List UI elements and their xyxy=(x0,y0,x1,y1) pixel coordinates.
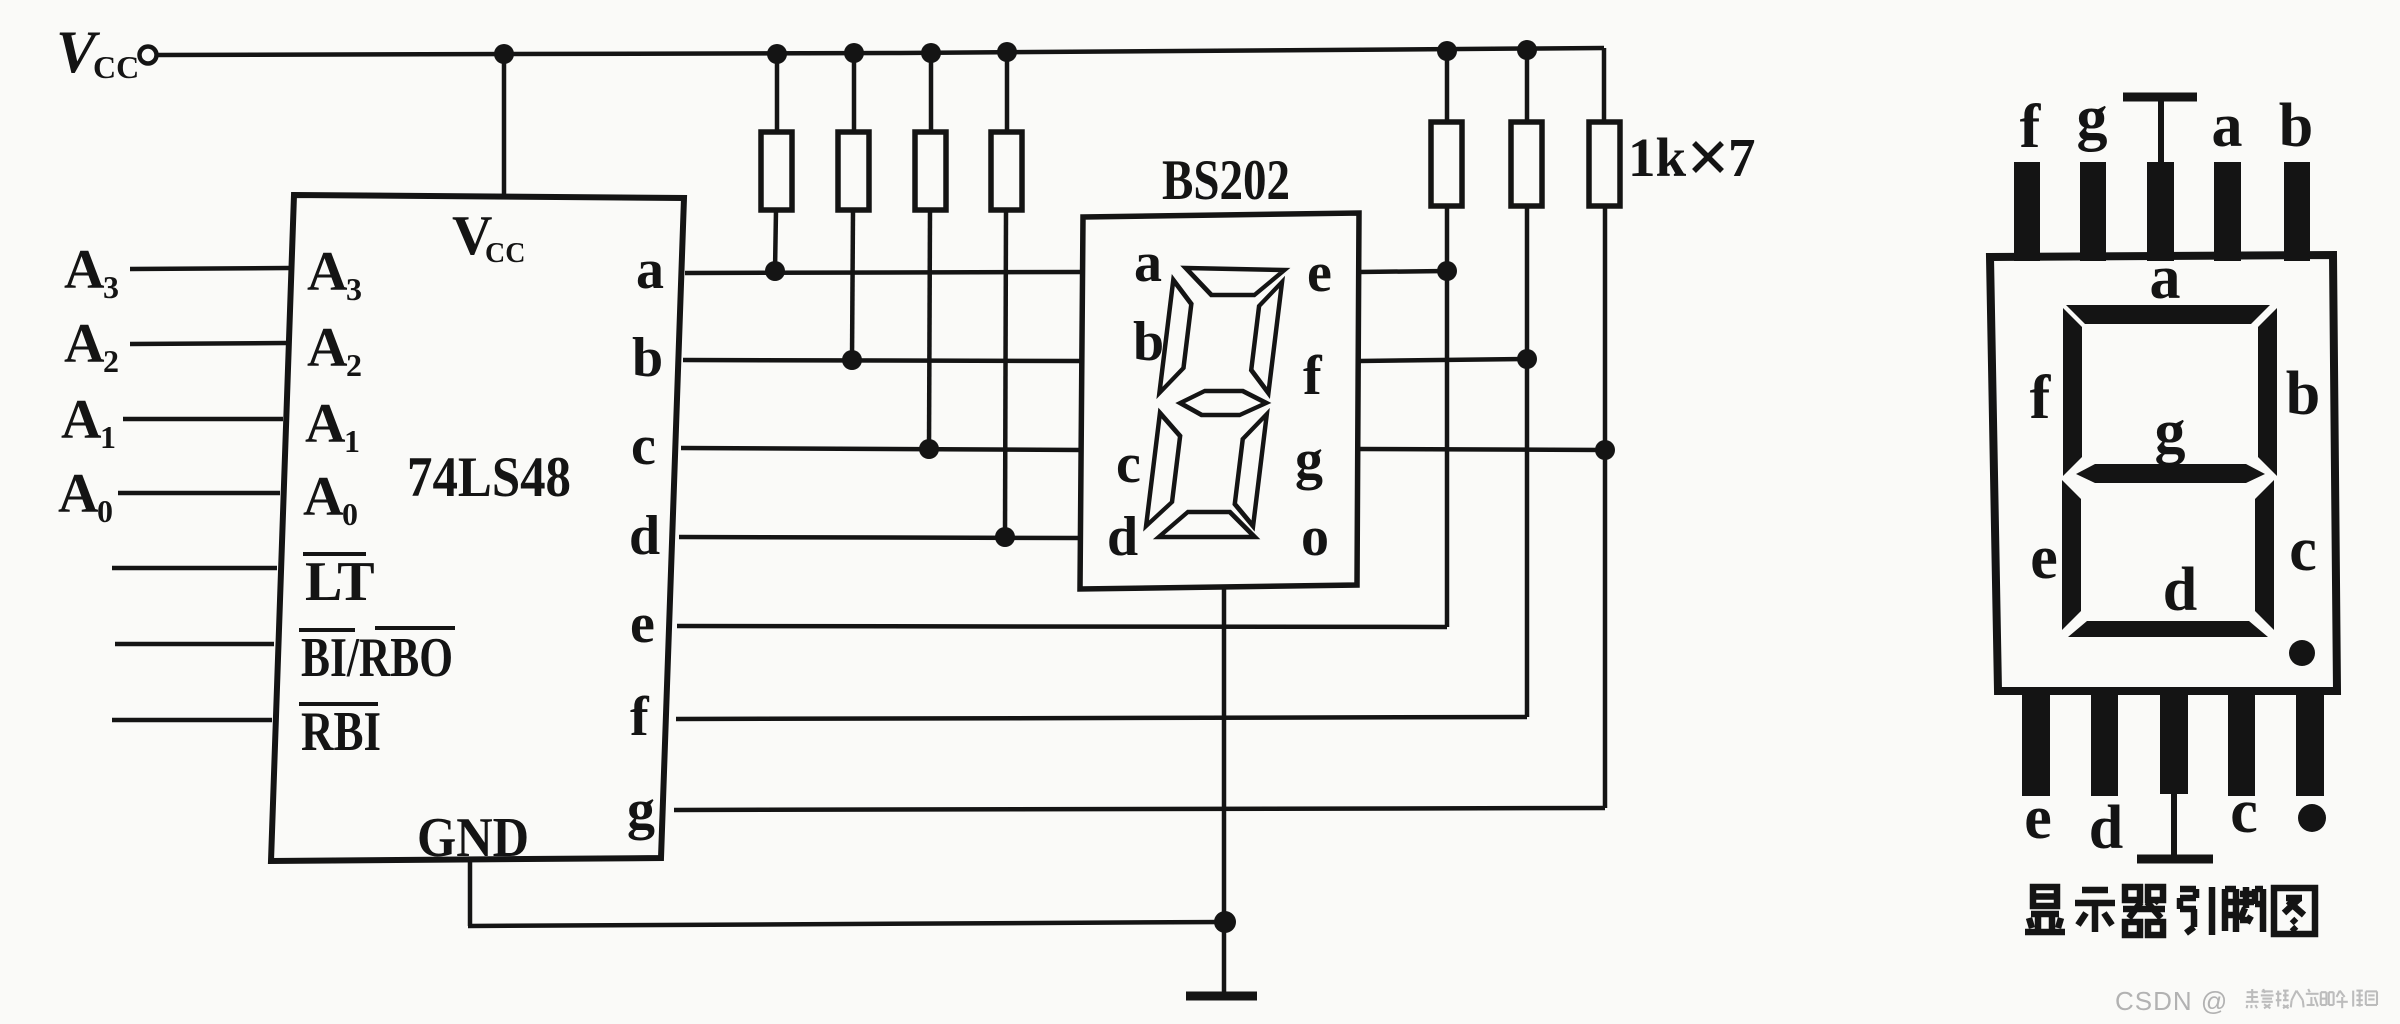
DS2 common anode stem xyxy=(2158,97,2164,162)
svg-text:3: 3 xyxy=(346,271,362,307)
segment b outline (upper-right) xyxy=(1248,282,1282,393)
U1 pin label BI/RBO xyxy=(299,627,455,689)
svg-text:2: 2 xyxy=(103,343,119,379)
segment c outline (lower-right) xyxy=(1232,414,1267,526)
segment g outline (middle) xyxy=(1179,391,1268,415)
DS2 segment a (solid) xyxy=(2066,305,2270,324)
DS2 bottom pin dp xyxy=(2296,691,2324,796)
node junction R6 stub f xyxy=(1517,349,1537,369)
svg-text:2: 2 xyxy=(346,347,362,383)
svg-text:A: A xyxy=(64,313,105,375)
U1 pin label RBI xyxy=(299,701,381,763)
svg-text:f: f xyxy=(2020,93,2042,161)
node junction Vcc/U1 xyxy=(494,44,514,64)
wire GND horizontal run xyxy=(468,922,1225,926)
U1 pin label A3 in xyxy=(307,241,362,307)
display DS1 BS202 body xyxy=(1080,213,1359,589)
caption 显示器引脚图 (hand-drawn glyphs) xyxy=(2025,887,2315,935)
node junction R4 row d xyxy=(995,527,1015,547)
op-amp U1 74LS48 body xyxy=(271,195,684,861)
glyph 图 xyxy=(2274,888,2315,934)
DS2 segment b (solid) xyxy=(2258,308,2277,476)
DS2 segment e (solid) xyxy=(2062,480,2081,630)
svg-text:a: a xyxy=(1134,232,1162,294)
display DS2 pinout body xyxy=(1990,255,2337,691)
wire Vcc drop to U1 xyxy=(502,54,507,197)
ground symbol xyxy=(1186,992,1257,1001)
svg-text:A: A xyxy=(303,466,344,528)
resistor R1 (pull-up a) xyxy=(761,54,792,271)
DS2 decimal point dot xyxy=(2289,640,2315,666)
svg-text:c: c xyxy=(631,415,656,477)
svg-text:g: g xyxy=(2077,84,2108,152)
segment f outline (upper-left) xyxy=(1159,280,1194,393)
svg-text:g: g xyxy=(1295,429,1323,491)
DS2 ground bar xyxy=(2137,855,2213,864)
wire row a U1 to DS1 xyxy=(685,272,1084,273)
U1 pin label LT xyxy=(303,551,375,613)
svg-text:BS202: BS202 xyxy=(1162,149,1290,212)
svg-text:RBI: RBI xyxy=(301,701,381,763)
node junction R1 row a xyxy=(765,261,785,281)
DS2 top pin f xyxy=(2014,162,2040,261)
svg-text:A: A xyxy=(305,393,346,455)
svg-text:a: a xyxy=(2212,92,2243,160)
node junction R3 rail xyxy=(921,43,941,63)
glyph 器 xyxy=(2123,887,2165,935)
svg-text:d: d xyxy=(1107,506,1138,568)
svg-text:o: o xyxy=(1301,506,1329,568)
svg-text:f: f xyxy=(1303,345,1323,407)
glyph 示 xyxy=(2075,890,2115,932)
svg-text:7: 7 xyxy=(1728,127,1756,188)
svg-text:b: b xyxy=(2279,92,2313,160)
wire row f U1 to R6 xyxy=(676,717,1527,719)
svg-text:1: 1 xyxy=(344,423,360,459)
segment d outline (bottom) xyxy=(1159,512,1258,537)
svg-text:b: b xyxy=(1133,311,1164,373)
svg-text:A: A xyxy=(64,239,105,301)
wire row b U1 to DS1 xyxy=(683,360,1084,361)
DS2 bottom pin e xyxy=(2022,691,2050,796)
glyph 脚 xyxy=(2225,887,2263,932)
DS2 bottom pin c xyxy=(2228,691,2255,796)
node junction R5 stub e xyxy=(1437,261,1457,281)
svg-text:CSDN @: CSDN @ xyxy=(2115,986,2228,1016)
node A2 input label xyxy=(64,313,119,379)
wire DS1 common cathode down xyxy=(1222,589,1227,996)
svg-text:74LS48: 74LS48 xyxy=(407,446,571,509)
svg-text:BI/RBO: BI/RBO xyxy=(301,627,453,689)
glyph 引 xyxy=(2180,887,2212,935)
wire BI/RBO input xyxy=(115,642,274,647)
U1 pin label Vcc xyxy=(452,205,525,269)
watermark chinese chars (approx strokes) xyxy=(2246,989,2377,1008)
svg-text:c: c xyxy=(2289,516,2317,584)
DS2 bottom pin d xyxy=(2091,691,2118,796)
node Vcc terminal xyxy=(56,19,157,85)
svg-text:e: e xyxy=(2024,784,2052,852)
U1 pin label A0 in xyxy=(303,466,358,532)
node junction R5 rail xyxy=(1437,41,1457,61)
resistor R7 (pull-up g) xyxy=(1589,122,1620,808)
node A3 input label xyxy=(64,239,119,305)
node junction R4 rail xyxy=(997,42,1017,62)
svg-text:g: g xyxy=(627,779,655,841)
segment e outline (lower-left) xyxy=(1146,413,1183,526)
wire row c U1 to DS1 xyxy=(681,448,1083,450)
node junction R3 row c xyxy=(919,439,939,459)
wire A0 input xyxy=(118,491,280,496)
DS2 ground stem xyxy=(2171,794,2177,858)
wire A2 input xyxy=(130,343,286,344)
wire A3 input xyxy=(130,268,289,269)
DS1 seven-segment digit outline xyxy=(1142,268,1288,537)
resistor R6 (pull-up f) xyxy=(1511,50,1542,717)
svg-text:d: d xyxy=(2089,794,2123,862)
svg-text:A: A xyxy=(61,389,102,451)
svg-text:A: A xyxy=(58,463,99,525)
svg-text:g: g xyxy=(2155,398,2186,466)
svg-text:a: a xyxy=(636,239,664,301)
svg-text:0: 0 xyxy=(97,493,113,529)
wire Vcc top rail xyxy=(157,48,1604,55)
svg-text:d: d xyxy=(629,505,660,567)
segment a outline xyxy=(1182,268,1284,295)
svg-text:GND: GND xyxy=(417,807,529,869)
svg-text:e: e xyxy=(630,593,655,655)
resistor R4 (pull-up d) xyxy=(991,52,1022,537)
DS2 segment g (solid) xyxy=(2076,464,2265,483)
svg-text:d: d xyxy=(2163,556,2197,624)
svg-text:c: c xyxy=(1116,433,1141,495)
node junction R2 row b xyxy=(842,350,862,370)
DS2 segment f (solid) xyxy=(2063,308,2082,476)
wire A1 input xyxy=(123,417,283,422)
svg-text:b: b xyxy=(632,327,663,389)
DS2 top pin g xyxy=(2080,162,2106,261)
R1-R7 value label 1k x7 xyxy=(1628,127,1756,188)
svg-text:1: 1 xyxy=(100,419,116,455)
U1 pin label A2 in xyxy=(307,317,362,383)
svg-text:A: A xyxy=(307,317,348,379)
svg-text:CC: CC xyxy=(485,238,525,269)
node junction R6 rail xyxy=(1517,40,1537,60)
DS2 bottom pin common xyxy=(2160,691,2188,794)
svg-text:3: 3 xyxy=(103,269,119,305)
svg-text:f: f xyxy=(2030,364,2052,432)
svg-text:e: e xyxy=(1307,242,1332,304)
resistor R2 (pull-up b) xyxy=(838,53,869,360)
node junction GND xyxy=(1214,911,1236,933)
wire RBI input xyxy=(112,718,272,723)
node junction R7 stub g xyxy=(1595,440,1615,460)
glyph 显 xyxy=(2025,887,2065,932)
wire rail corner down to R7 xyxy=(1602,48,1607,124)
svg-text:A: A xyxy=(307,241,348,303)
node junction R2 rail xyxy=(844,43,864,63)
svg-text:LT: LT xyxy=(305,551,375,613)
resistor R3 (pull-up c) xyxy=(915,53,946,449)
svg-text:0: 0 xyxy=(342,496,358,532)
DS2 segment c (solid) xyxy=(2255,480,2274,630)
resistor R5 (pull-up e) xyxy=(1431,51,1462,627)
svg-text:c: c xyxy=(2230,778,2258,846)
svg-text:f: f xyxy=(630,686,650,748)
svg-text:e: e xyxy=(2030,524,2058,592)
DS2 top pin common xyxy=(2147,162,2174,261)
wire row d U1 to DS1 xyxy=(679,537,1082,538)
svg-text:CC: CC xyxy=(93,49,139,85)
wire stub g DS1 to R7 xyxy=(1358,449,1605,450)
node A0 input label xyxy=(58,463,113,529)
U1 pin label A1 in xyxy=(305,393,360,459)
wire LT input xyxy=(112,566,277,571)
svg-text:1k: 1k xyxy=(1628,127,1687,188)
DS2 segment d (solid) xyxy=(2068,621,2268,637)
DS2 top pin b xyxy=(2284,162,2310,261)
wire U1 GND pin down xyxy=(468,858,473,926)
node A1 input label xyxy=(61,389,116,455)
svg-text:a: a xyxy=(2150,244,2181,312)
wire row e U1 to R5 xyxy=(677,626,1447,627)
DS2 top pin a xyxy=(2214,162,2241,261)
Vcc terminal circle xyxy=(140,47,157,64)
svg-text:b: b xyxy=(2286,360,2320,428)
DS2 common anode bar xyxy=(2123,93,2197,102)
DS2 bottom dp dot xyxy=(2298,804,2326,832)
wire row g U1 to R7 xyxy=(674,808,1605,810)
wire stub f DS1 to R6 xyxy=(1359,359,1527,361)
wire stub e DS1 to R5 xyxy=(1359,271,1447,272)
node junction R1 rail xyxy=(767,44,787,64)
